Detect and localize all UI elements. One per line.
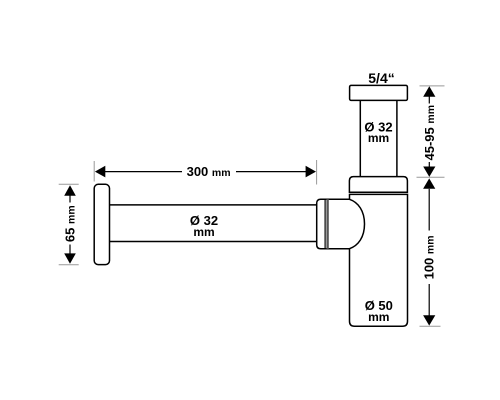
svg-text:mm: mm <box>193 225 214 239</box>
dimension 300 mm: line right segment <box>236 171 307 173</box>
bottle body <box>350 194 408 326</box>
dimension 100 mm: line top segment <box>428 189 430 231</box>
dimension 45-95 mm: middle tick <box>417 176 445 178</box>
dimension 300 mm: left tick <box>93 161 95 182</box>
dimension 65 mm: top arrow <box>64 185 76 195</box>
svg-text:100 mm: 100 mm <box>422 235 437 279</box>
nut separation line <box>324 199 326 249</box>
dimension 300 mm: line left segment <box>105 171 183 173</box>
dimension 300 mm: right tick <box>316 160 318 185</box>
svg-text:mm: mm <box>368 131 389 145</box>
trap nut <box>349 177 407 193</box>
dimension 65 mm: line top segment <box>69 196 71 203</box>
dimension 45-95 mm: line bottom segment <box>428 162 430 167</box>
dimension 65 mm: top tick <box>59 183 79 185</box>
dimension 300 mm: right arrow <box>306 166 316 178</box>
pipe-end nut with elbow ball <box>317 199 365 249</box>
svg-text:65 mm: 65 mm <box>63 205 78 242</box>
dimension 100 mm: top arrow <box>423 178 435 188</box>
svg-text:45-95 mm: 45-95 mm <box>422 105 437 161</box>
svg-text:300 mm: 300 mm <box>187 164 231 179</box>
dimension 45-95 mm: line top segment <box>428 97 430 104</box>
top cap <box>350 85 408 100</box>
dimension 45-95 mm: bottom arrow <box>423 167 435 177</box>
svg-text:5/4“: 5/4“ <box>368 70 394 86</box>
nut gray band <box>326 199 328 249</box>
dimension 100 mm: bottom tick <box>420 325 441 327</box>
dimension 65 mm: line bottom segment <box>69 245 71 255</box>
wall flange <box>94 184 109 264</box>
svg-text:mm: mm <box>368 310 389 324</box>
vertical pipe <box>360 100 397 176</box>
dimension 100 mm: bottom arrow <box>423 315 435 325</box>
dimension 100 mm: line bottom segment <box>428 284 430 316</box>
dimension 300 mm: left arrow <box>95 166 105 178</box>
horizontal pipe <box>110 205 317 242</box>
dimension 65 mm: bottom arrow <box>64 253 76 263</box>
dimension 45-95 mm: top arrow <box>423 86 435 96</box>
dimension 45-95 mm: top tick <box>420 85 445 87</box>
dimension 65 mm: bottom tick <box>59 264 79 266</box>
